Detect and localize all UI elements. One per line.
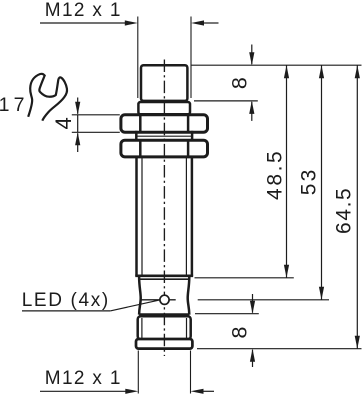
dimension 8 bottom right bbox=[227, 294, 255, 367]
dimension 48.5 bbox=[264, 65, 290, 278]
dimension 64.5 bbox=[333, 65, 360, 349]
svg-text:53: 53 bbox=[297, 168, 320, 196]
bottom dimension line left segment with arrow bbox=[40, 389, 138, 394]
top dimension line right segment with arrow bbox=[191, 20, 219, 25]
bottom dimension line right segment with arrow bbox=[191, 389, 215, 394]
horizontal centerline at LED bbox=[140, 299, 176, 301]
collar below plug bbox=[138, 102, 190, 114]
LED label with underline and leader bbox=[22, 290, 160, 311]
svg-text:48.5: 48.5 bbox=[264, 149, 287, 200]
bottom extension line right bbox=[190, 351, 192, 394]
svg-text:17: 17 bbox=[0, 94, 29, 116]
dimension 4 (nut thickness) bbox=[51, 98, 120, 153]
svg-text:64.5: 64.5 bbox=[333, 187, 356, 234]
bottom extension line left bbox=[137, 351, 139, 394]
bottom end cap bbox=[136, 339, 192, 349]
dimension 8 top right bbox=[227, 45, 254, 121]
vertical centerline bbox=[163, 60, 165, 357]
bottom connector M12 bbox=[138, 316, 191, 339]
right extension line at connector top bbox=[195, 313, 259, 315]
svg-text:8: 8 bbox=[227, 326, 251, 338]
sensor body: top plug M12 bbox=[141, 65, 187, 101]
wrench icon bbox=[28, 74, 67, 121]
svg-text:M12 x 1: M12 x 1 bbox=[45, 368, 122, 389]
threaded barrel bbox=[137, 156, 192, 277]
top dimension line left segment with arrow bbox=[40, 20, 138, 25]
svg-text:4: 4 bbox=[51, 117, 76, 129]
top extension line left bbox=[137, 17, 139, 99]
svg-text:M12 x 1: M12 x 1 bbox=[45, 0, 122, 21]
smooth housing section with LED band bbox=[139, 277, 189, 315]
svg-text:8: 8 bbox=[227, 77, 251, 89]
hex nut 1 bbox=[121, 115, 208, 132]
LED indicator circle bbox=[160, 295, 169, 304]
dimension 53 bbox=[297, 65, 324, 300]
right extension line at barrel thread end bbox=[195, 277, 294, 279]
right extension line at sensor top bbox=[191, 64, 362, 66]
right extension line at sensor bottom bbox=[197, 348, 362, 350]
top extension line right bbox=[190, 17, 192, 99]
barrel in gap between nuts bbox=[136, 131, 192, 142]
right extension line at top thread end bbox=[194, 100, 258, 102]
right extension line at LED level bbox=[198, 299, 329, 301]
svg-text:LED (4x): LED (4x) bbox=[22, 290, 110, 311]
hex nut 2 bbox=[121, 140, 208, 157]
barrel thread end step bbox=[135, 276, 193, 279]
